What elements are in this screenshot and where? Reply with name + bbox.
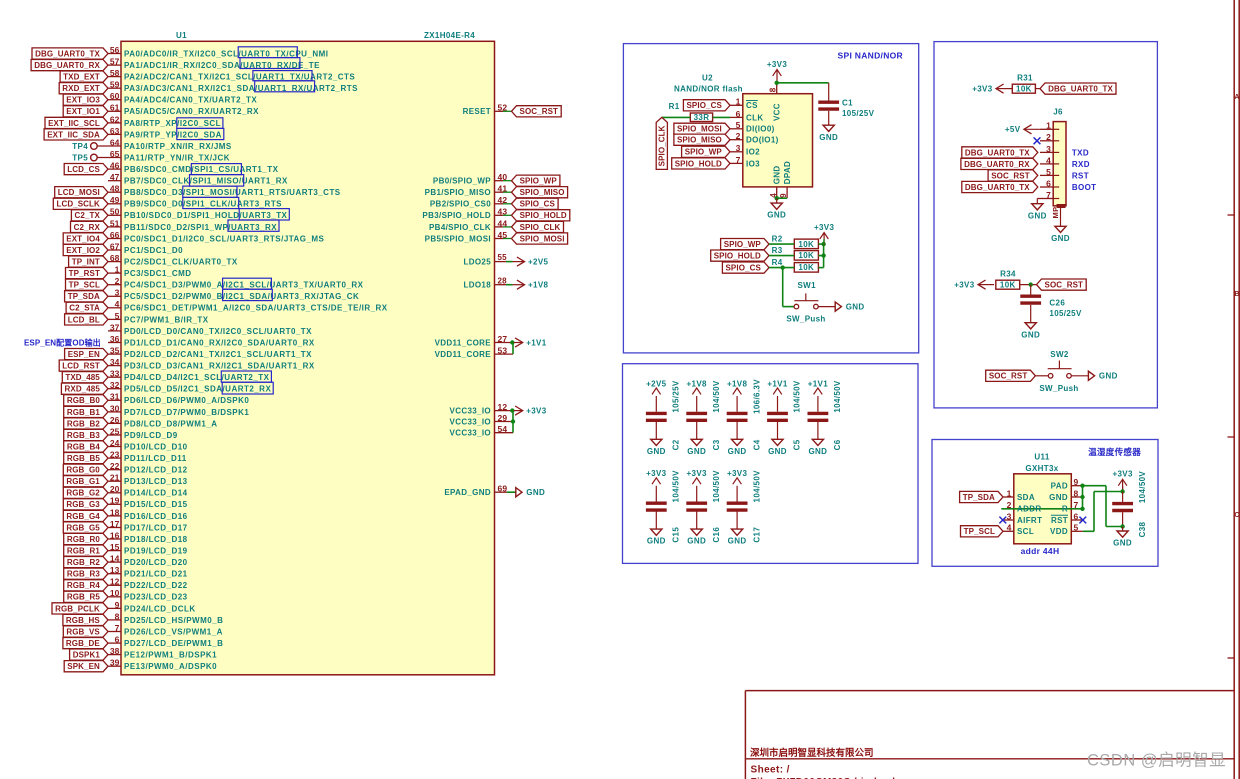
pin 46 PB6 of U1 [108,168,121,170]
svg-text:PD11/LCD_D11: PD11/LCD_D11 [124,454,187,463]
svg-text:TXD_EXT: TXD_EXT [63,73,100,82]
sheet box debug UART [934,42,1157,408]
svg-text:7: 7 [736,155,741,165]
svg-text:+3V3: +3V3 [646,469,667,478]
junction on SPIO_CS wire [781,265,785,269]
svg-text:62: 62 [110,114,120,124]
wire MP to GND [1060,208,1062,227]
svg-text:LCD_BL: LCD_BL [68,315,100,324]
wire [1035,88,1040,90]
svg-text:+3V3: +3V3 [687,469,708,478]
svg-text:33R: 33R [694,113,710,122]
svg-text:17: 17 [110,519,120,529]
pin 38 PE12 of U1 [108,654,121,656]
svg-text:+1V8: +1V8 [528,281,549,290]
svg-text:VCC33_IO: VCC33_IO [450,429,491,438]
hier label C2_TX [71,210,108,221]
svg-text:105/25V: 105/25V [842,109,875,118]
svg-text:63: 63 [110,126,120,136]
svg-text:RGB_G5: RGB_G5 [66,523,100,532]
svg-text:10K: 10K [798,240,814,249]
pin 6 CLK of U2 [730,116,743,118]
svg-text:104/50V: 104/50V [672,470,681,503]
svg-text:R4: R4 [772,258,783,267]
svg-text:+1V1: +1V1 [526,338,547,347]
svg-text:C38: C38 [1138,521,1147,537]
svg-text:Sheet: /: Sheet: / [751,765,790,776]
svg-text:5: 5 [1046,167,1051,177]
svg-text:R1: R1 [669,102,680,111]
svg-text:C15: C15 [672,527,681,543]
hier label RGB_VS [63,626,108,637]
svg-text:104/50V: 104/50V [752,470,761,503]
svg-text:8: 8 [769,87,778,92]
ground below J6 [1060,225,1062,227]
svg-text:DBG_UART0_RX: DBG_UART0_RX [34,61,100,70]
svg-text:C4: C4 [752,439,761,450]
wire VCC to C1 [777,82,829,84]
svg-text:VCC33_IO: VCC33_IO [450,417,491,426]
pin 52 RESET of U1 [495,110,504,112]
wire to SW1 [782,268,784,307]
svg-text:PD6/LCD_D6/PWM0_A/DSPK0: PD6/LCD_D6/PWM0_A/DSPK0 [124,396,249,405]
svg-text:GND: GND [728,447,747,456]
pin 63 PA9 of U1 [108,133,121,135]
svg-text:54: 54 [498,424,508,434]
svg-text:3: 3 [736,143,741,153]
svg-text:9: 9 [1074,477,1079,487]
hier label EXT_IIC_SCL [45,117,108,128]
pins 12/29/54 VCC33_IO of U1 [495,410,514,412]
svg-text:GND: GND [819,133,838,142]
svg-text:PC2/SDC1_CLK/UART0_TX: PC2/SDC1_CLK/UART0_TX [124,258,238,267]
svg-text:DBG_UART0_RX: DBG_UART0_RX [964,160,1030,169]
wire VCC33 tie [512,411,514,433]
svg-text:61: 61 [110,103,120,113]
pin 45 of U1 right [495,238,504,240]
svg-text:PD5/LCD_D5/I2C1_SDA/UART2_RX: PD5/LCD_D5/I2C1_SDA/UART2_RX [124,385,271,394]
svg-text:6: 6 [736,109,741,119]
svg-text:RGB_B0: RGB_B0 [67,396,101,405]
pin MP of J6 [1057,204,1066,208]
junction [1080,484,1084,488]
pin 65 PA11 of U1 [97,157,121,159]
svg-text:J6: J6 [1053,108,1063,117]
svg-text:49: 49 [110,195,120,205]
svg-text:PC1/SDC1_D0: PC1/SDC1_D0 [124,246,183,255]
pin 42 of U1 right [495,203,504,205]
svg-text:RESET: RESET [463,107,491,116]
pin 49 PB9 of U1 [108,203,121,205]
svg-text:19: 19 [110,496,120,506]
svg-text:PD22/LCD_D22: PD22/LCD_D22 [124,581,188,590]
svg-text:PD2/LCD_D2/CAN1_TX/I2C1_SCL/UA: PD2/LCD_D2/CAN1_TX/I2C1_SCL/UART1_TX [124,350,312,359]
svg-text:VCC: VCC [772,103,781,121]
hier label SOC_RST [1037,279,1087,290]
svg-text:RGB_R2: RGB_R2 [67,558,101,567]
svg-text:TP_SDA: TP_SDA [68,292,100,301]
component U2 NAND/NOR flash body [743,94,813,187]
svg-text:10K: 10K [798,263,814,272]
pin 6 RST of U11 stub [1071,519,1083,521]
svg-text:67: 67 [110,241,120,251]
hier label DBG_UART0_RX pin4 [961,158,1038,169]
power +1V1 [514,342,523,344]
sheet box temperature humidity sensor [932,440,1158,567]
svg-text:VCC33_IO: VCC33_IO [450,407,491,416]
svg-text:PD21/LCD_D21: PD21/LCD_D21 [124,570,188,579]
svg-text:57: 57 [110,57,120,67]
wire [769,255,794,257]
hier label DBG_UART0_RX [31,60,108,71]
hier label EXT_IIC_SDA [44,129,108,140]
svg-text:CS: CS [746,101,758,110]
svg-text:50: 50 [110,207,120,217]
svg-text:DO(IO1): DO(IO1) [746,136,779,145]
pin 28 LDO18 of U1 to +1V8 [495,284,507,286]
svg-text:GND: GND [1113,539,1132,548]
svg-text:ZX1H04E-R4: ZX1H04E-R4 [424,31,475,40]
svg-text:ADDR: ADDR [1017,505,1042,514]
svg-text:6: 6 [115,635,120,645]
junction [1080,495,1084,499]
svg-text:PC7/PWM1_B/IR_TX: PC7/PWM1_B/IR_TX [124,315,209,324]
svg-text:AIFRT: AIFRT [1017,516,1042,525]
pin 58 PA2 of U1 [108,76,121,78]
svg-text:SPIO_WP: SPIO_WP [685,148,723,157]
svg-text:DI(IO0): DI(IO0) [746,125,775,134]
svg-text:SPIO_MISO: SPIO_MISO [520,188,565,197]
svg-text:SPIO_CLK: SPIO_CLK [520,223,561,232]
svg-text:C2_TX: C2_TX [74,211,100,220]
svg-text:2: 2 [115,276,120,286]
hier label RGB_R1 [64,545,108,556]
pin 50 PB10 of U1 [108,214,121,216]
svg-text:4: 4 [115,299,120,309]
svg-text:58: 58 [110,68,120,78]
svg-text:PD16/LCD_D16: PD16/LCD_D16 [124,512,188,521]
svg-text:64: 64 [110,137,120,147]
pin 32 PD5 of U1 [108,388,121,390]
pin 1 PC3 of U1 [108,272,121,274]
svg-text:U1: U1 [176,31,187,40]
svg-text:TP4: TP4 [72,142,88,151]
svg-text:EXT_IO4: EXT_IO4 [66,234,100,243]
hier label LCD_BL [65,314,108,325]
svg-text:104/50V: 104/50V [793,380,802,413]
junction [1120,524,1124,528]
junction [821,242,825,246]
svg-text:GND: GND [767,211,786,220]
junction [775,196,779,200]
svg-text:DBG_UART0_TX: DBG_UART0_TX [1048,85,1113,94]
hier label SPIO_HOLD [512,210,570,221]
svg-text:41: 41 [498,184,508,194]
hier label RGB_DE [63,638,108,649]
svg-text:SPIO_CLK: SPIO_CLK [658,125,667,166]
svg-text:104/50V: 104/50V [833,380,842,413]
svg-text:GXHT3x: GXHT3x [1025,464,1058,473]
ground right of SW2 [1088,371,1094,380]
svg-text:C5: C5 [793,439,802,450]
hier label RGB_G2 [63,487,108,498]
svg-text:U11: U11 [1034,453,1049,462]
hier label SPIO_WP [512,175,560,186]
svg-text:VDD: VDD [1050,527,1068,536]
svg-text:SPIO_MOSI: SPIO_MOSI [677,125,722,134]
svg-text:PA8/RTP_XP/I2C0_SCL: PA8/RTP_XP/I2C0_SCL [124,119,221,128]
pin 67 PC1 of U1 [108,249,121,251]
pin 59 PA3 of U1 [108,87,121,89]
wire SPIO_CLK to R1 [662,116,691,118]
pin 5 VDD of U11 stub [1071,530,1083,532]
svg-text:3: 3 [1007,511,1012,521]
svg-text:RXD_485: RXD_485 [65,385,101,394]
svg-text:105/25V: 105/25V [1049,309,1082,318]
svg-text:48: 48 [110,184,120,194]
svg-text:PC0/SDC1_D1/I2C0_SCL/UART3_RTS: PC0/SDC1_D1/I2C0_SCL/UART3_RTS/JTAG_MS [124,234,325,243]
pin 25 PD9 of U1 [108,434,121,436]
svg-text:+3V3: +3V3 [814,223,835,232]
pin 48 PB8 of U1 [108,191,121,193]
pin 66 PC0 of U1 [108,238,121,240]
svg-text:GND: GND [1028,211,1047,220]
wire [769,267,794,269]
svg-text:GND: GND [808,447,827,456]
pin 6 PD27 of U1 [108,642,121,644]
svg-text:CLK: CLK [746,113,764,122]
svg-text:TP_RST: TP_RST [69,269,100,278]
hier label SOC_RST [512,106,562,117]
svg-text:DBG_UART0_TX: DBG_UART0_TX [965,148,1030,157]
svg-text:4: 4 [1007,523,1012,533]
hier label SPIO_CS [512,198,559,209]
svg-text:16: 16 [110,530,120,540]
hier label RGB_B5 [64,453,108,464]
svg-text:+1V8: +1V8 [687,379,708,388]
pin 34 PD3 of U1 [108,365,121,367]
svg-text:RGB_R0: RGB_R0 [67,535,101,544]
junction [511,419,515,423]
power +3V3 above C38 [1122,479,1124,491]
ground right of SW1 [835,302,841,311]
hier label RGB_R0 [64,533,108,544]
svg-text:GND: GND [647,447,666,456]
svg-text:8: 8 [115,611,120,621]
svg-text:43: 43 [498,207,508,217]
svg-text:36: 36 [110,334,120,344]
wire ADDR to R net [1001,508,1082,510]
svg-text:104/50V: 104/50V [712,470,721,503]
hier label RXD_485 [61,383,108,394]
svg-text:PD23/LCD_D23: PD23/LCD_D23 [124,593,188,602]
pin 5 PC7 of U1 [108,318,121,320]
hier label LCD_MOSI [55,187,108,198]
sheet box decoupling capacitors [623,364,919,564]
svg-text:12: 12 [110,577,120,587]
pin 19 PD15 of U1 [108,503,121,505]
junction [821,253,825,257]
pin 12 PD22 of U1 [108,584,121,586]
junction [1120,489,1124,493]
pin 3 IO2 of U2 [730,151,743,153]
hier label RGB_B0 [64,395,108,406]
svg-text:RGB_B5: RGB_B5 [67,454,101,463]
svg-text:SW_Push: SW_Push [786,315,825,324]
pin 62 PA8 of U1 [108,122,121,124]
svg-text:PD25/LCD_HS/PWM0_B: PD25/LCD_HS/PWM0_B [124,616,223,625]
svg-text:PC4/SDC1_D3/PWM0_A/I2C1_SCL/UA: PC4/SDC1_D3/PWM0_A/I2C1_SCL/UART3_TX/UAR… [124,281,364,290]
svg-text:22: 22 [110,461,120,471]
svg-text:RGB_R1: RGB_R1 [67,547,101,556]
ground J6 pin7 [1036,202,1038,205]
svg-text:C2: C2 [672,439,681,450]
svg-text:9: 9 [115,600,120,610]
svg-text:10: 10 [110,588,120,598]
svg-text:+3V3: +3V3 [767,60,788,69]
svg-text:PD26/LCD_VS/PWM1_A: PD26/LCD_VS/PWM1_A [124,627,223,636]
pin 15 PD19 of U1 [108,550,121,552]
hier label ESP_EN [65,349,108,360]
pin 18 PD16 of U1 [108,515,121,517]
hier label RGB_G3 [63,499,108,510]
svg-text:C2_STA: C2_STA [69,304,100,313]
pin 3 AIFRT of U11 stub [1003,519,1014,521]
pin 44 of U1 right [495,226,504,228]
svg-text:GND: GND [772,165,781,184]
svg-text:PD14/LCD_D14: PD14/LCD_D14 [124,489,188,498]
wire pullup rail [823,244,825,268]
hier label SPIO_MISO [512,187,568,198]
svg-text:TXD_485: TXD_485 [65,373,100,382]
svg-text:106/6.3V: 106/6.3V [752,379,761,414]
hier label SPIO_WP [682,146,730,157]
svg-text:RGB_DE: RGB_DE [66,639,101,648]
svg-text:GND: GND [1099,372,1118,381]
svg-text:+3V3: +3V3 [972,85,993,94]
hier label TP_SCL [66,279,109,290]
svg-text:40: 40 [498,172,508,182]
svg-text:SPIO_HOLD: SPIO_HOLD [520,211,567,220]
junction [510,408,514,412]
wire SW2 to GND [1071,375,1088,377]
svg-text:PE13/PWM0_A/DSPK0: PE13/PWM0_A/DSPK0 [124,662,217,671]
svg-text:RGB_G2: RGB_G2 [66,489,100,498]
svg-text:+3V3: +3V3 [727,469,748,478]
svg-text:3: 3 [115,288,120,298]
pin 2 DO(IO1) of U2 [730,139,743,141]
svg-text:PB8/SDC0_D3/SPI1_MOSI/UART1_RT: PB8/SDC0_D3/SPI1_MOSI/UART1_RTS/UART3_CT… [124,188,341,197]
svg-text:+1V1: +1V1 [767,379,788,388]
hier label SOC_RST pin5 [988,170,1038,181]
title block border [745,690,1234,692]
pin 41 of U1 right [495,191,504,193]
pin 61 PA5 of U1 [108,110,121,112]
hier label SPK_EN [64,661,108,672]
pin 30 PD7 of U1 [108,411,121,413]
hier label TP_SDA [960,491,1003,502]
note blue highlight boxes on U1 pin functions [238,47,297,58]
svg-text:RXD: RXD [1072,160,1090,169]
pin 40 of U1 right [495,180,504,182]
hier label RGB_R2 [64,557,108,568]
svg-text:TP_INT: TP_INT [72,258,100,267]
svg-text:21: 21 [110,473,120,483]
svg-text:RXD_EXT: RXD_EXT [62,84,100,93]
svg-text:NAND/NOR flash: NAND/NOR flash [674,85,743,94]
svg-text:GND: GND [1051,234,1070,243]
svg-text:GND: GND [647,537,666,546]
svg-text:DSPK1: DSPK1 [73,651,101,660]
svg-text:12: 12 [498,402,508,412]
svg-text:C3: C3 [712,439,721,450]
pin 64 PA10 of U1 [97,145,121,147]
pin 3 PC5 of U1 [108,295,121,297]
hier label RGB_R3 [64,568,108,579]
hier label EXT_IO4 [63,233,108,244]
svg-text:53: 53 [498,346,508,356]
svg-text:PB3/SPIO_HOLD: PB3/SPIO_HOLD [422,211,491,220]
svg-text:PA4/ADC4/CAN0_TX/UART2_TX: PA4/ADC4/CAN0_TX/UART2_TX [124,96,257,105]
svg-text:SDA: SDA [1017,493,1035,502]
svg-text:68: 68 [110,253,120,263]
svg-text:PA2/ADC2/CAN1_TX/I2C1_SCL/UART: PA2/ADC2/CAN1_TX/I2C1_SCL/UART1_TX/UART2… [124,73,355,82]
svg-text:2: 2 [1046,132,1051,142]
junction [775,81,779,85]
pin 31 PD6 of U1 [108,399,121,401]
svg-text:C16: C16 [712,527,721,543]
wire VDD11 tie [512,343,514,355]
pin 22 PD12 of U1 [108,469,121,471]
svg-text:RGB_G1: RGB_G1 [66,477,100,486]
svg-text:温湿度传感器: 温湿度传感器 [1088,447,1141,457]
svg-text:60: 60 [110,91,120,101]
svg-text:105/25V: 105/25V [672,380,681,413]
pin 8 VCC of U2 [776,83,778,94]
svg-text:18: 18 [110,507,120,517]
svg-text:RGB_B2: RGB_B2 [67,419,101,428]
svg-text:10K: 10K [798,251,814,260]
svg-text:PA5/ADC5/CAN0_RX/UART2_RX: PA5/ADC5/CAN0_RX/UART2_RX [124,107,259,116]
svg-text:A: A [1234,94,1239,101]
pin 4 of J6 [1040,163,1053,165]
svg-text:RGB_VS: RGB_VS [66,627,100,636]
svg-text:56: 56 [110,45,120,55]
svg-text:23: 23 [110,450,120,460]
hier label TP_RST [66,268,109,279]
svg-text:29: 29 [498,413,508,423]
svg-text:5: 5 [736,120,741,130]
svg-text:PD8/LCD_D8/PWM1_A: PD8/LCD_D8/PWM1_A [124,419,218,428]
svg-text:28: 28 [498,276,508,285]
svg-text:+5V: +5V [1005,125,1021,134]
pin 53 VDD11_CORE of U1 [495,353,514,355]
pin 24 PD10 of U1 [108,446,121,448]
hier label RGB_R5 [64,591,108,602]
svg-text:LDO18: LDO18 [463,281,491,290]
pin 8 GND of U11 stub [1071,496,1083,498]
svg-text:C1: C1 [842,99,853,108]
svg-text:IO3: IO3 [746,159,760,168]
hier label SPIO_CLK [512,221,564,232]
capacitor C1 105/25V [818,100,839,103]
capacitor C38 104/50V [1112,502,1133,505]
svg-text:SOC_RST: SOC_RST [989,372,1028,381]
hier label EXT_IO3 [63,94,108,105]
pin 47 PB7 of U1 [108,180,121,182]
no-connect X at J6 pin2 [1034,137,1041,144]
hier label RGB_B3 [64,429,108,440]
